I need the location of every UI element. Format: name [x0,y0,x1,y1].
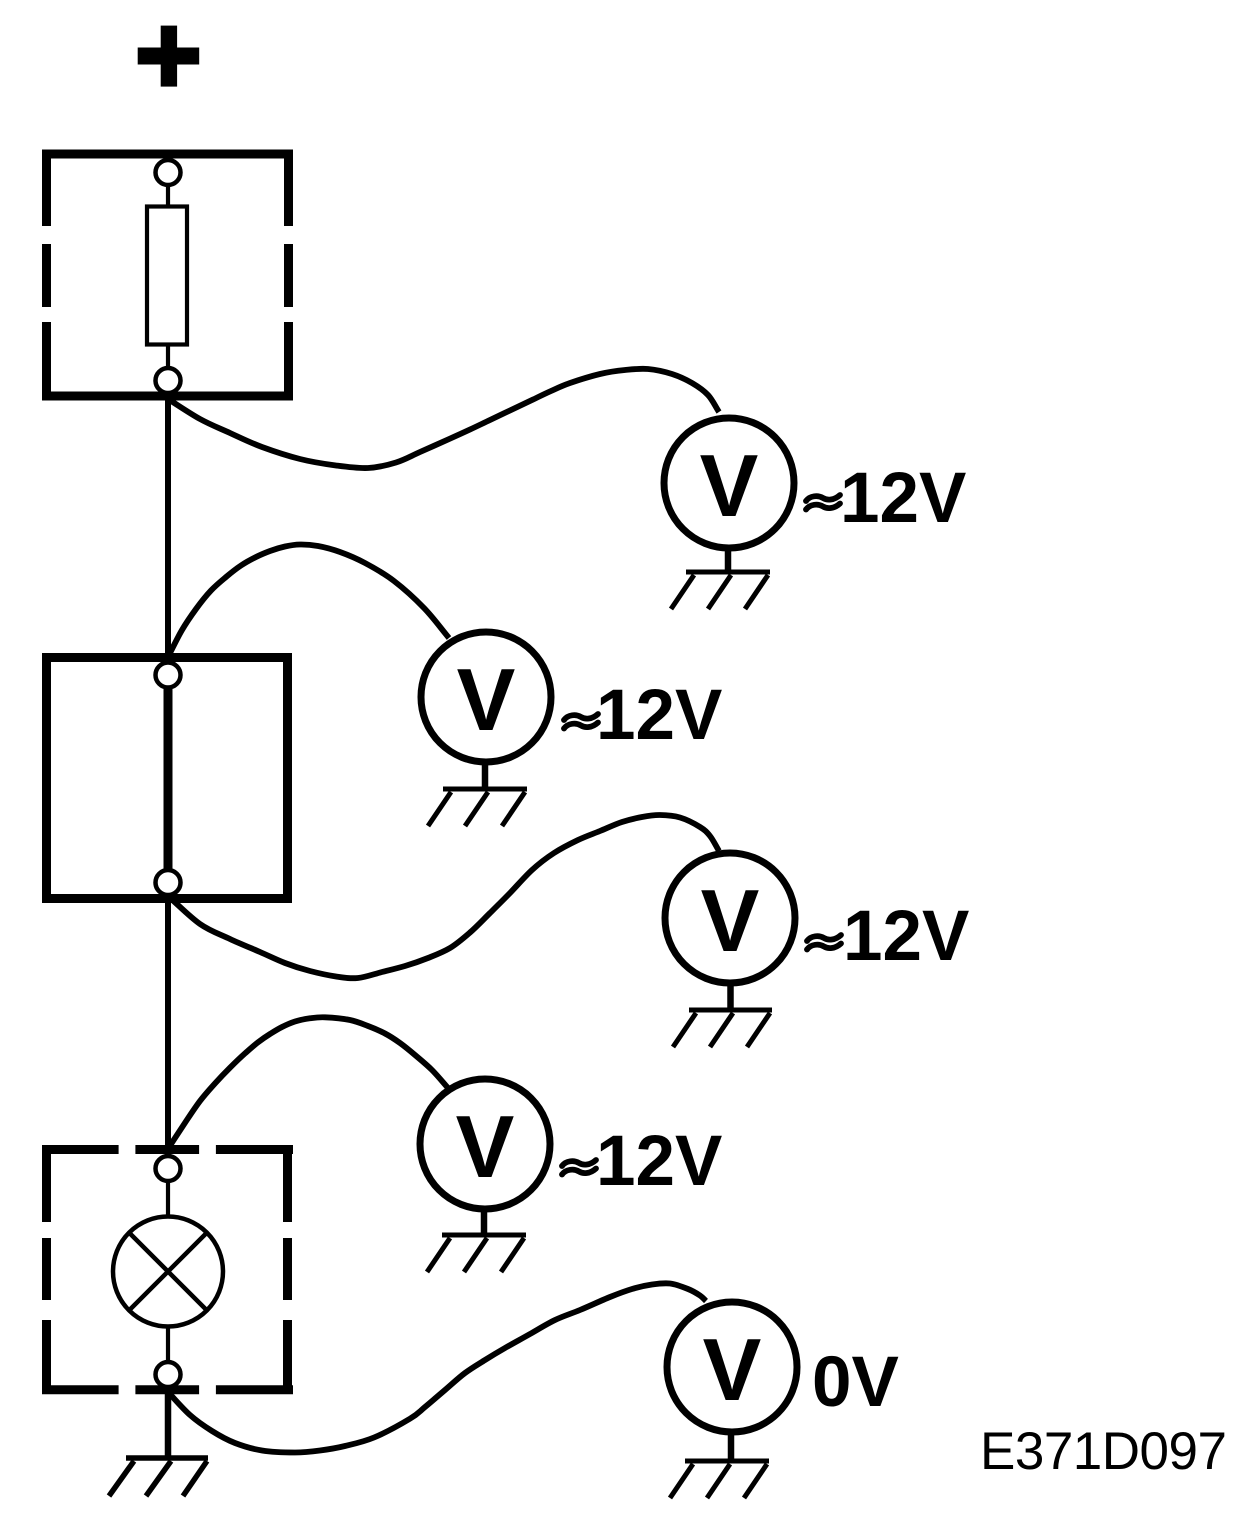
wire: lamp to bottom terminal [166,1325,170,1363]
ground (voltmeter V3) [673,1010,772,1047]
wire: top terminal to fuse [166,184,170,206]
wire: V3 to ground stem [727,983,734,1008]
voltmeter V5 [667,1302,797,1432]
voltmeter V3 [665,853,795,983]
lamp E1 (circle with X) [113,1217,223,1327]
wire: probe lead from lamp input to voltmeter V4 [169,1017,449,1148]
wire: probe lead from lamp output to voltmeter V5 [168,1283,706,1452]
svg-text:V: V [700,436,759,535]
wire: V5 to ground stem [728,1432,735,1459]
svg-text:V: V [457,650,516,749]
svg-text:12V: 12V [843,897,969,976]
fuse box (dashed component outline) [42,150,293,401]
node: switch top terminal [156,663,181,688]
wire: probe lead from switch output to voltmeter V3 [168,815,719,978]
ground (voltmeter V4) [427,1235,526,1272]
node: fuse box top terminal [156,160,181,185]
wire: fuse box to switch box (main feed) [165,392,171,663]
svg-text:V: V [703,1320,762,1419]
wire: lamp box to chassis ground [165,1386,172,1456]
node: fuse box bottom terminal [156,368,181,393]
svg-text:0V: 0V [812,1343,899,1422]
wire: top terminal to lamp [166,1180,170,1218]
label: approx 12V at V4 [562,1160,596,1175]
wire: V1 to ground stem [725,548,732,572]
voltmeter V4 [420,1079,550,1209]
wire: V4 to ground stem [481,1209,488,1234]
wire: switch internal contact (closed) [164,687,173,872]
voltmeter V1 [664,418,794,548]
node: lamp box top terminal [156,1156,181,1181]
ground (voltmeter V2) [428,789,527,826]
ground (voltmeter V1) [671,572,770,609]
node: switch bottom terminal [156,870,181,895]
wire: V2 to ground stem [482,762,489,788]
ground (main chassis ground) [109,1458,208,1496]
wire: switch box to lamp box [165,894,171,1157]
ground (voltmeter V5) [670,1461,769,1498]
svg-text:V: V [456,1097,515,1196]
svg-text:12V: 12V [840,459,966,538]
label: approx 12V at V1 [806,495,840,510]
lamp box (dashed component outline) [42,1145,293,1394]
switch box (solid component outline) [47,658,288,899]
fuse F1 (cartridge symbol) [147,207,187,345]
wire: probe lead from switch input to voltmeter V2 [169,544,449,655]
voltmeter V2 [421,632,551,762]
node: lamp box bottom terminal [156,1362,181,1387]
label: approx 12V at V2 [564,714,598,729]
battery positive terminal "+" [138,26,200,87]
svg-text:E371D097: E371D097 [980,1422,1226,1481]
svg-text:V: V [701,871,760,970]
svg-text:12V: 12V [596,676,722,755]
wire: probe lead from fuse output to voltmeter V1 [168,369,719,468]
svg-text:12V: 12V [596,1122,722,1201]
label: approx 12V at V3 [807,935,841,950]
wire: fuse to bottom terminal [166,345,170,370]
